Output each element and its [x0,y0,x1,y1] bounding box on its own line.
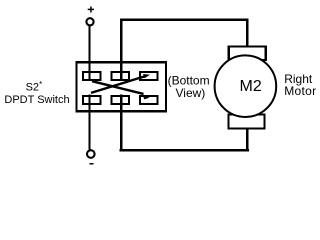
switch S2 outline [77,62,167,111]
svg-text:View): View) [176,86,206,100]
bottom horizontal wire [120,149,249,152]
crossover arrow B (top-left to bottom-right) [92,81,150,99]
wire from switch top-middle terminal up [120,20,122,81]
wire up to motor bottom [246,128,248,151]
wire from + terminal to switch top-left terminal [88,25,90,81]
switch terminal 5 (bottom-middle) [112,96,130,104]
wire from switch bottom-middle terminal down [120,95,122,152]
battery - terminal [87,150,95,164]
crossover arrow A (bottom-left to top-right) [91,74,150,93]
motor M2 body [215,55,277,117]
motor M2 bottom cap [229,115,265,129]
switch terminal 6 (bottom-right) [140,96,158,104]
switch terminal 3 (top-right) [140,72,158,80]
switch terminal 2 (top-middle) [112,72,130,80]
wire down to motor top [246,19,248,47]
switch terminal 1 (top-left) [83,72,101,80]
top horizontal wire [120,18,248,20]
battery + terminal [86,7,94,26]
wire from switch bottom-left terminal to - terminal [88,95,90,150]
motor M2 top cap [229,46,266,60]
switch terminal 4 (bottom-left) [83,96,101,104]
svg-text:Motor: Motor [284,84,316,98]
svg-text:DPDT Switch: DPDT Switch [4,94,69,106]
svg-text:M2: M2 [240,78,262,95]
